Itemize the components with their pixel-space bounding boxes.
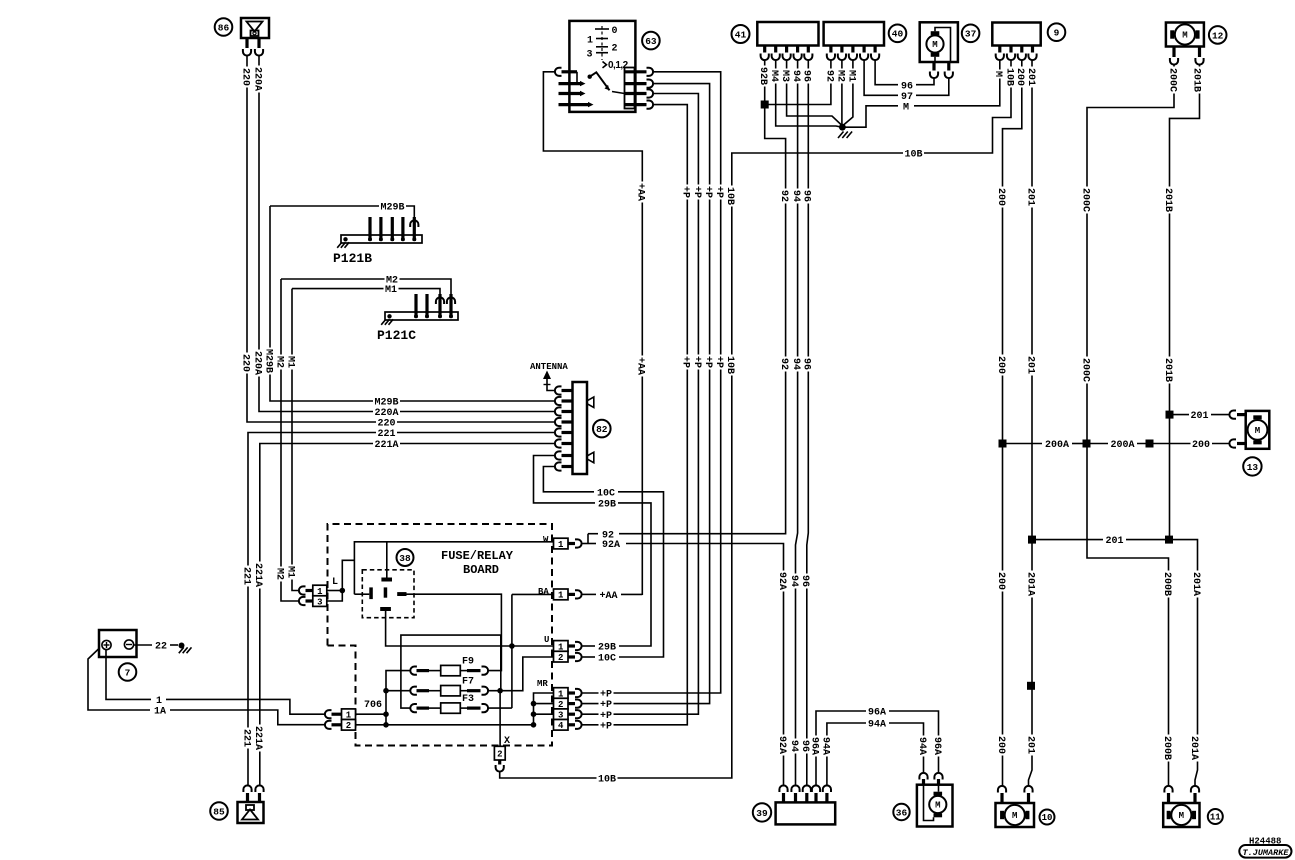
svg-text:94: 94 — [788, 575, 799, 587]
svg-text:P121C: P121C — [377, 328, 416, 343]
svg-text:201: 201 — [1024, 356, 1035, 374]
pin W/1 — [543, 535, 582, 550]
wire fuse-left bus — [386, 671, 411, 725]
label 200 — [1191, 438, 1212, 449]
svg-text:12: 12 — [1212, 30, 1224, 41]
wire +P (MR4) — [582, 105, 688, 725]
wire 201 branch to motor 13 — [1166, 411, 1174, 419]
svg-text:2: 2 — [346, 721, 351, 731]
svg-text:201: 201 — [1024, 188, 1035, 206]
svg-text:96: 96 — [801, 190, 812, 202]
label M1 (vertical) — [286, 565, 297, 580]
svg-text:M1: M1 — [284, 566, 295, 578]
svg-text:220: 220 — [239, 68, 250, 86]
rotary switch 63 — [555, 21, 653, 112]
fuse F3 — [410, 694, 488, 713]
label 94 (vertical) — [792, 357, 803, 372]
svg-text:M: M — [903, 102, 909, 113]
label 221A — [373, 438, 400, 449]
svg-text:M: M — [1179, 811, 1184, 821]
label 200C (vertical) — [1168, 67, 1179, 94]
label 94 (vertical) — [792, 189, 803, 204]
wire 29B — [583, 645, 596, 647]
svg-text:96: 96 — [801, 70, 812, 82]
wire 96 to motor 37 — [875, 61, 898, 85]
svg-text:92B: 92B — [757, 67, 768, 85]
wire M1 — [292, 289, 300, 591]
component circle 12 — [1209, 26, 1227, 44]
svg-text:92: 92 — [778, 358, 789, 370]
svg-text:10B: 10B — [904, 150, 922, 161]
svg-text:92: 92 — [823, 70, 834, 82]
wire 92 junction row — [765, 61, 831, 105]
svg-text:37: 37 — [965, 29, 977, 40]
svg-text:96A: 96A — [931, 737, 942, 755]
motor 11 — [1163, 786, 1199, 827]
pin U/1 and U/2 — [544, 635, 582, 663]
pin BA/1 — [538, 587, 582, 601]
svg-text:200: 200 — [995, 188, 1006, 206]
label 220A (vertical) — [253, 66, 264, 93]
label 221 — [376, 427, 397, 438]
label 201A (vertical) — [1192, 571, 1203, 598]
label 201 (vertical) — [1026, 187, 1037, 208]
label 201 — [1104, 534, 1125, 545]
label 96 (vertical) — [803, 69, 814, 84]
label 92 — [601, 528, 616, 539]
svg-text:200A: 200A — [1045, 440, 1069, 451]
battery/unit 7 — [99, 630, 137, 657]
label 201B (vertical) — [1164, 357, 1175, 384]
wire M2 to ground — [841, 61, 843, 127]
svg-text:2: 2 — [497, 749, 502, 759]
label 94A (vertical) — [918, 736, 929, 757]
connector unit 40 — [824, 22, 884, 60]
label +P (vertical) — [693, 355, 704, 370]
label +P — [599, 698, 614, 709]
label 200C (vertical) — [1081, 187, 1092, 214]
svg-text:92: 92 — [778, 190, 789, 202]
component circle 41 — [732, 25, 750, 43]
label 201 (vertical) — [1026, 355, 1037, 376]
label M1 — [384, 283, 399, 294]
svg-text:M1: M1 — [284, 356, 295, 368]
label 92 (vertical) — [825, 69, 836, 84]
svg-text:M3: M3 — [779, 70, 790, 82]
wire relay contact to F9 — [407, 594, 502, 670]
svg-text:10B: 10B — [724, 187, 735, 205]
label 201 (vertical) — [1026, 735, 1037, 756]
label M2 (vertical) — [836, 69, 847, 84]
svg-text:M: M — [1012, 811, 1017, 821]
component circle 13 — [1243, 457, 1261, 475]
label 96 (vertical) — [801, 739, 812, 754]
label 221 (vertical) — [242, 566, 253, 587]
label 92A (vertical) — [778, 735, 789, 756]
svg-text:92A: 92A — [776, 572, 787, 590]
svg-text:+P: +P — [600, 721, 612, 732]
svg-text:L: L — [332, 577, 338, 588]
svg-text:200: 200 — [995, 736, 1006, 754]
label 94 (vertical) — [792, 69, 803, 84]
label 221A (vertical) — [254, 725, 265, 752]
svg-text:38: 38 — [399, 553, 411, 564]
wire F3 right to U1 node — [488, 707, 512, 709]
label 92A (vertical) — [778, 571, 789, 592]
label 1 — [155, 694, 164, 705]
svg-text:M: M — [1182, 31, 1187, 41]
label 10B (vertical) — [726, 186, 737, 207]
label 96 (vertical) — [801, 574, 812, 589]
junction on 201 — [1027, 682, 1035, 690]
svg-text:94A: 94A — [916, 737, 927, 755]
wire 201 — [1029, 61, 1033, 787]
svg-text:+P: +P — [680, 186, 691, 198]
svg-text:+AA: +AA — [599, 591, 617, 602]
wire X feed — [499, 691, 501, 747]
svg-text:96A: 96A — [868, 708, 886, 719]
svg-text:T.JUMARKE: T.JUMARKE — [1243, 848, 1290, 858]
label 221 (vertical) — [242, 728, 253, 749]
wire 96A — [816, 711, 866, 787]
label 200A — [1109, 438, 1136, 449]
wire 200 — [1003, 61, 1022, 787]
component circle 86 — [215, 18, 233, 36]
ground bar P121B — [333, 217, 422, 266]
svg-text:3: 3 — [317, 597, 322, 607]
component circle 11 — [1208, 809, 1223, 824]
svg-text:W: W — [543, 535, 549, 545]
wire 220A — [259, 55, 555, 412]
svg-text:BA: BA — [538, 587, 549, 597]
wire 220 — [247, 55, 555, 423]
speaker 86 — [241, 18, 269, 56]
svg-text:97: 97 — [901, 92, 913, 103]
label M (vertical) — [994, 70, 1005, 79]
svg-text:94: 94 — [790, 358, 801, 370]
svg-text:200: 200 — [1014, 68, 1025, 86]
svg-text:ANTENNA: ANTENNA — [530, 362, 568, 372]
antenna symbol — [530, 362, 568, 391]
label 200 (vertical) — [997, 735, 1008, 756]
label +P (vertical) — [693, 185, 704, 200]
label 200 (vertical) — [997, 571, 1008, 592]
svg-text:82: 82 — [596, 424, 608, 435]
svg-text:M29B: M29B — [262, 349, 273, 373]
connector unit 9 — [992, 23, 1040, 61]
svg-text:22: 22 — [155, 642, 167, 653]
wire 94A — [827, 723, 866, 787]
svg-text:94A: 94A — [819, 737, 830, 755]
pins MR/1-4 — [537, 679, 582, 731]
label 1A — [153, 704, 168, 715]
label 200B (vertical) — [1163, 571, 1174, 598]
svg-text:200A: 200A — [1110, 440, 1134, 451]
svg-text:201B: 201B — [1190, 68, 1201, 92]
wire 221 — [248, 433, 555, 787]
label 94 (vertical) — [790, 739, 801, 754]
connector 706 pins 1/2 — [325, 700, 382, 731]
svg-text:220A: 220A — [251, 67, 262, 91]
pin X/2 — [494, 736, 510, 772]
svg-text:201B: 201B — [1162, 188, 1173, 212]
wire F7 right to U2 pin — [488, 657, 554, 691]
label M29B — [373, 395, 400, 406]
svg-text:221: 221 — [240, 567, 251, 585]
wire F3 left loop to F7 right — [401, 635, 501, 708]
label +AA (vertical) — [637, 182, 648, 203]
component circle 36 — [893, 804, 909, 820]
svg-text:201A: 201A — [1024, 572, 1035, 596]
svg-text:10B: 10B — [598, 775, 616, 786]
ground under 40 — [839, 124, 846, 131]
svg-text:200: 200 — [995, 572, 1006, 590]
svg-text:41: 41 — [735, 29, 747, 40]
svg-text:201: 201 — [1105, 536, 1123, 547]
label 200A — [1044, 438, 1071, 449]
label M1 (vertical) — [847, 69, 858, 84]
svg-text:85: 85 — [213, 806, 225, 817]
label 10C — [597, 651, 618, 662]
wire 22 — [134, 644, 152, 646]
wire 221A — [260, 444, 555, 787]
motor 36 — [917, 773, 953, 827]
component circle 85 — [210, 802, 228, 820]
label M4 (vertical) — [770, 69, 781, 84]
label 201A (vertical) — [1026, 571, 1037, 598]
svg-text:706: 706 — [364, 700, 382, 711]
svg-text:36: 36 — [896, 807, 908, 818]
svg-text:40: 40 — [892, 29, 904, 40]
svg-text:200: 200 — [1192, 440, 1210, 451]
svg-text:92A: 92A — [776, 736, 787, 754]
svg-text:201A: 201A — [1190, 572, 1201, 596]
label 96A — [867, 705, 888, 716]
svg-text:1: 1 — [558, 591, 564, 601]
svg-text:29B: 29B — [598, 500, 616, 511]
svg-text:200C: 200C — [1079, 188, 1090, 212]
wire relay bottom to U1 row — [386, 611, 554, 646]
label 220A (vertical) — [253, 350, 264, 377]
svg-text:M4: M4 — [768, 70, 779, 82]
wire 94 — [796, 61, 798, 787]
label 200B (vertical) — [1163, 735, 1174, 762]
svg-text:7: 7 — [125, 667, 131, 678]
ground bar P121C — [377, 294, 458, 343]
svg-text:F3: F3 — [462, 694, 474, 705]
component circle 40 — [889, 25, 907, 43]
label 97 — [900, 90, 915, 101]
svg-text:39: 39 — [756, 808, 768, 819]
wire 96 — [807, 61, 809, 787]
label M29B (vertical) — [264, 348, 275, 375]
ground for wire 22 — [179, 643, 185, 649]
svg-text:200: 200 — [995, 356, 1006, 374]
svg-text:94: 94 — [788, 740, 799, 752]
label +P — [599, 687, 614, 698]
label M — [902, 100, 911, 111]
label 92A — [601, 538, 622, 549]
label 10B — [903, 147, 924, 158]
svg-text:201B: 201B — [1162, 358, 1173, 382]
svg-text:FUSE/RELAY: FUSE/RELAY — [441, 549, 514, 563]
component circle 63 — [642, 32, 660, 50]
svg-text:94: 94 — [790, 190, 801, 202]
component circle 37 — [962, 25, 980, 43]
motor 12 — [1166, 23, 1204, 65]
svg-text:X: X — [504, 736, 510, 747]
label M2 — [385, 273, 400, 284]
svg-text:10C: 10C — [598, 654, 616, 665]
svg-text:+P: +P — [680, 356, 691, 368]
svg-text:201: 201 — [1024, 736, 1035, 754]
radio 82 — [555, 382, 594, 474]
label 92 (vertical) — [780, 357, 791, 372]
wire 10C — [583, 656, 596, 658]
motor 37 — [920, 22, 958, 78]
label M3 (vertical) — [781, 69, 792, 84]
relay (dashed) with contacts — [362, 570, 414, 618]
wire M1 to P121C — [436, 297, 444, 304]
svg-text:94A: 94A — [868, 720, 886, 731]
svg-text:M29B: M29B — [380, 203, 404, 214]
connector unit 41 — [757, 22, 818, 60]
svg-text:2: 2 — [612, 44, 618, 55]
wire 200A row — [999, 440, 1007, 448]
label 220 (vertical) — [241, 67, 252, 88]
svg-text:200B: 200B — [1161, 736, 1172, 760]
label 220 (vertical) — [241, 353, 252, 374]
svg-text:221A: 221A — [374, 440, 398, 451]
svg-text:220: 220 — [239, 354, 250, 372]
component circle 7 — [119, 663, 137, 681]
svg-text:M1: M1 — [845, 70, 856, 82]
label M2 (vertical) — [275, 355, 286, 370]
svg-text:U: U — [544, 635, 549, 645]
label 92B (vertical) — [759, 66, 770, 87]
speaker 85 — [238, 785, 264, 823]
label 201B (vertical) — [1164, 187, 1175, 214]
svg-text:86: 86 — [218, 22, 230, 33]
component circle 10 — [1040, 810, 1055, 825]
wire +P (MR3) — [582, 94, 699, 715]
svg-text:3: 3 — [587, 50, 593, 61]
svg-text:1: 1 — [587, 36, 593, 47]
svg-text:10B: 10B — [724, 356, 735, 374]
connector unit 39 — [776, 785, 836, 824]
svg-text:201: 201 — [1190, 411, 1208, 422]
wire M — [842, 106, 898, 127]
label 22 — [154, 639, 169, 650]
svg-text:9: 9 — [1054, 28, 1060, 39]
label 220A — [373, 406, 400, 417]
junction 92B/92 — [761, 101, 769, 109]
svg-text:201A: 201A — [1188, 736, 1199, 760]
label 94A (vertical) — [821, 736, 832, 757]
svg-text:+AA: +AA — [635, 357, 646, 375]
label +P — [599, 719, 614, 730]
label 10B — [597, 772, 618, 783]
svg-text:10B: 10B — [1003, 68, 1014, 86]
wire M29B — [270, 206, 555, 401]
svg-text:92A: 92A — [602, 540, 620, 551]
logo T.JUMARKE — [1239, 845, 1291, 858]
svg-text:96A: 96A — [808, 737, 819, 755]
svg-text:0: 0 — [612, 26, 618, 37]
wire 92/92A from pin W — [583, 543, 589, 545]
svg-text:0,1,2: 0,1,2 — [608, 60, 629, 71]
svg-text:2: 2 — [558, 653, 563, 663]
wire relay coil to W net — [386, 542, 388, 578]
label 201 — [1189, 409, 1210, 420]
label 201B (vertical) — [1192, 67, 1203, 94]
wire +P (MR1) — [582, 72, 721, 693]
label 29B — [597, 640, 618, 651]
component circle 38 — [397, 549, 414, 566]
label 29B — [597, 497, 618, 508]
svg-text:201: 201 — [1025, 68, 1036, 86]
svg-text:220A: 220A — [374, 408, 398, 419]
motor 13 — [1229, 411, 1269, 449]
component circle 9 — [1048, 23, 1066, 41]
label M1 (vertical) — [286, 355, 297, 370]
wire M2 to P121C — [447, 297, 455, 304]
wire 201B — [1170, 64, 1200, 540]
svg-text:4: 4 — [558, 721, 564, 731]
svg-text:10: 10 — [1042, 813, 1053, 823]
wire 200C — [1087, 64, 1174, 787]
component circle 39 — [753, 803, 771, 821]
svg-text:MR: MR — [537, 679, 548, 689]
fuse/relay board 38 outline — [328, 524, 553, 746]
wire M29B to P121B — [410, 220, 418, 227]
label 200 (vertical) — [997, 187, 1008, 208]
svg-text:F7: F7 — [462, 677, 474, 688]
wire 10B — [500, 61, 1011, 779]
svg-text:10C: 10C — [597, 488, 615, 499]
svg-text:11: 11 — [1210, 813, 1221, 823]
label +P (vertical) — [704, 185, 715, 200]
svg-text:M29B: M29B — [374, 398, 398, 409]
wire 201A branch row — [1028, 536, 1036, 544]
svg-text:13: 13 — [1247, 462, 1259, 473]
wire +P (MR2) — [582, 84, 710, 704]
label 96 — [900, 79, 915, 90]
label +P (vertical) — [682, 185, 693, 200]
label +AA — [598, 589, 619, 600]
wire BA feed (U1 node to BA pin) — [512, 593, 554, 595]
svg-text:M: M — [992, 71, 1003, 77]
svg-text:M: M — [932, 40, 937, 50]
label 200 (vertical) — [1016, 67, 1027, 88]
svg-text:96: 96 — [799, 575, 810, 587]
svg-text:221A: 221A — [252, 726, 263, 750]
svg-text:200C: 200C — [1079, 358, 1090, 382]
wire L-net (pins 1,3 to W pin and relay) — [327, 590, 343, 592]
label 221A (vertical) — [254, 562, 265, 589]
svg-text:63: 63 — [645, 36, 657, 47]
svg-text:M1: M1 — [385, 285, 397, 296]
svg-text:94: 94 — [790, 70, 801, 82]
label M29B — [379, 200, 406, 211]
wire 1 — [106, 650, 151, 700]
label 200C (vertical) — [1081, 357, 1092, 384]
label M2 (vertical) — [275, 567, 286, 582]
fuse F9 — [410, 657, 488, 676]
label 201 (vertical) — [1027, 67, 1038, 88]
label +AA (vertical) — [637, 356, 648, 377]
label +P (vertical) — [715, 185, 726, 200]
